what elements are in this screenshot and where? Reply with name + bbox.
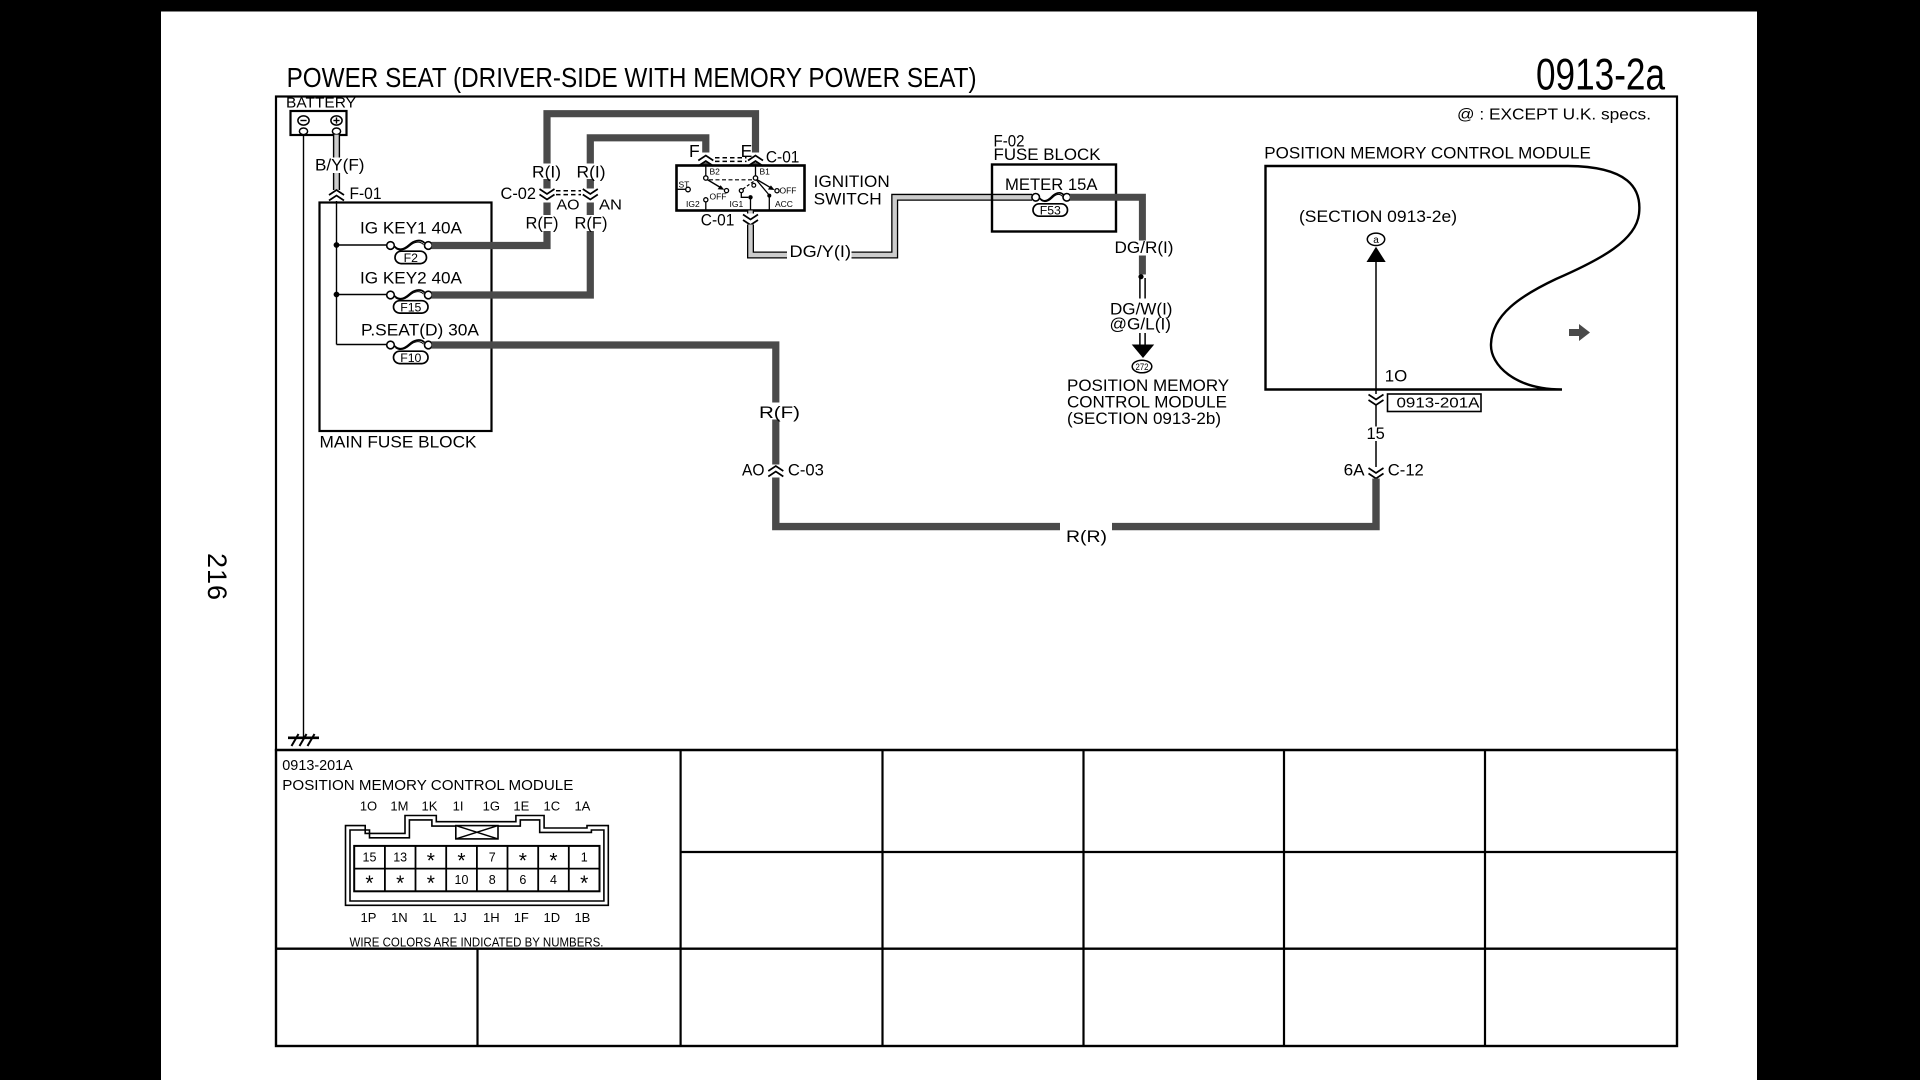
note EXCEPT U.K. specs [1457,107,1651,124]
svg-text:F15: F15 [400,301,421,315]
svg-text:BATTERY: BATTERY [286,95,356,112]
fuse block F-02 box [992,165,1116,232]
svg-text:C-02: C-02 [501,185,537,203]
svg-text:E: E [741,141,753,161]
fuse F10 P.SEAT(D) 30A [337,321,480,366]
svg-text:1E: 1E [513,799,529,814]
arrow up into node a [1367,247,1386,262]
svg-text:WIRE COLORS ARE INDICATED BY N: WIRE COLORS ARE INDICATED BY NUMBERS. [350,936,604,950]
label R(I) right [573,164,610,182]
svg-text:1O: 1O [360,799,377,814]
wire DG/W(I) splice to module 2b [1110,278,1173,345]
svg-text:POWER SEAT (DRIVER-SIDE WITH M: POWER SEAT (DRIVER-SIDE WITH MEMORY POWE… [287,62,977,93]
node a [1367,233,1384,246]
diagram border frame [276,97,1677,751]
svg-text:*: * [580,872,588,895]
svg-text:F: F [689,141,700,161]
svg-text:1K: 1K [422,799,438,814]
fuse F2 IG KEY1 40A [337,219,463,266]
svg-text:@G/L(I): @G/L(I) [1110,315,1172,334]
svg-text:OFF: OFF [710,192,727,202]
svg-text:10: 10 [455,873,469,887]
svg-text:1N: 1N [391,910,408,925]
wire DG/R(I) fuse to splice [1070,197,1176,274]
svg-text:SWITCH: SWITCH [814,190,882,209]
bottom table frame [276,750,1677,1046]
svg-text:*: * [519,850,527,873]
svg-text:POSITION MEMORY CONTROL MODULE: POSITION MEMORY CONTROL MODULE [282,777,573,794]
battery B01 [291,111,347,135]
svg-text:DG/R(I): DG/R(I) [1115,238,1174,257]
svg-text:F-01: F-01 [350,185,382,203]
svg-text:C-01: C-01 [766,149,800,167]
wire B/Y(F) battery positive to F-01 [312,135,368,190]
svg-text:IG KEY1 40A: IG KEY1 40A [360,219,463,238]
svg-text:P.SEAT(D) 30A: P.SEAT(D) 30A [361,321,480,340]
wire P.SEAT R(F) fuse F10 to C-03 [432,345,802,465]
svg-text:1I: 1I [453,799,464,814]
connector pin grid [354,846,599,891]
sheet code 0913-2a [1536,51,1665,100]
label R(I) left [528,164,565,182]
svg-text:13: 13 [393,851,407,865]
svg-text:1: 1 [581,851,588,865]
ground [288,734,319,746]
connector C-01 bottom [701,212,758,230]
svg-text:IGNITION: IGNITION [814,172,890,191]
fuse F53 METER 15A [1032,193,1071,218]
svg-text:B1: B1 [760,167,771,177]
svg-text:AO: AO [557,197,580,214]
svg-text:1L: 1L [422,910,436,925]
splice dot [1138,274,1143,279]
svg-text:*: * [365,872,373,895]
svg-text:*: * [396,872,404,895]
connector C-12 [1344,461,1424,480]
wire pin 1O to connector [1376,262,1407,394]
svg-text:4: 4 [550,873,557,887]
ignition switch internals [677,166,797,211]
module U1 outline with torn edge [1266,166,1640,390]
svg-text:R(F): R(F) [759,403,800,422]
label section 0913-2e [1299,207,1457,226]
svg-text:AN: AN [599,197,622,214]
connector C-03 [742,461,824,480]
junction node fuse bus 2 [334,292,340,298]
title POWER SEAT [287,62,977,93]
position memory control module label [1264,144,1591,163]
svg-text:C-01: C-01 [701,212,735,230]
svg-text:1C: 1C [543,799,560,814]
svg-text:1D: 1D [543,910,560,925]
svg-text:0913-2a: 0913-2a [1536,51,1665,100]
svg-text:1P: 1P [361,910,377,925]
connector F-01 [329,185,382,203]
svg-text:ACC: ACC [775,199,793,209]
svg-text:15: 15 [363,851,377,865]
svg-text:B/Y(F): B/Y(F) [315,157,365,175]
svg-text:POSITION MEMORY CONTROL MODULE: POSITION MEMORY CONTROL MODULE [1264,144,1591,163]
wire battery negative to ground [303,135,305,738]
label R(F) right [571,215,612,233]
svg-text:1O: 1O [1385,367,1408,386]
svg-text:F2: F2 [404,251,419,265]
svg-text:OFF: OFF [780,186,797,196]
svg-text:R(F): R(F) [526,215,559,233]
pin numbers row 1 [363,850,588,873]
svg-text:7: 7 [489,851,496,865]
svg-text:216: 216 [202,553,232,600]
svg-text:*: * [549,850,557,873]
svg-text:1J: 1J [453,910,467,925]
connector pin letters bottom row [361,910,591,925]
wire pin 15 [1364,405,1387,467]
svg-text:FUSE BLOCK: FUSE BLOCK [994,146,1101,164]
arrow to 272 [1132,345,1155,359]
svg-text:*: * [457,850,465,873]
connector 0913-201A chevron [1369,394,1482,412]
label position memory control module (section 0913-2b) [1067,376,1229,428]
svg-text:IG KEY2 40A: IG KEY2 40A [360,269,463,288]
svg-text:1G: 1G [483,799,500,814]
connector cell heading [282,757,573,794]
svg-text:6: 6 [519,873,526,887]
svg-text:B2: B2 [710,167,721,177]
svg-text:DG/Y(I): DG/Y(I) [790,243,852,261]
wire bus inside fuse block [336,201,338,345]
svg-text:15: 15 [1367,425,1385,443]
svg-text:(SECTION 0913-2e): (SECTION 0913-2e) [1299,207,1457,226]
page number 216 (rotated) [202,553,232,600]
svg-text:0913-201A: 0913-201A [1397,395,1480,412]
svg-text:METER 15A: METER 15A [1005,176,1098,194]
label R(F) left [522,215,563,233]
svg-text:AO: AO [742,461,765,480]
svg-text:0913-201A: 0913-201A [282,757,353,774]
pin numbers row 2 [365,872,588,895]
wire DG/Y(I) ignition switch to meter fuse [751,197,1033,261]
wire R(R) long bottom run [776,478,1376,547]
svg-text:1A: 1A [574,799,590,814]
svg-text:F10: F10 [400,351,421,365]
svg-text:(SECTION 0913-2b): (SECTION 0913-2b) [1067,409,1221,428]
svg-text:272: 272 [1136,362,1149,373]
svg-text:C-12: C-12 [1388,461,1424,480]
connector pin letters top row [360,799,591,814]
svg-text:R(I): R(I) [532,164,561,182]
connector C-02 [501,185,623,214]
svg-text:R(F): R(F) [575,215,608,233]
svg-text:C-03: C-03 [788,461,824,480]
wire R(F)/R(I) from fuse F15 to ignition switch F [432,138,706,295]
svg-text:R(I): R(I) [577,164,606,182]
svg-text:1F: 1F [514,910,529,925]
svg-text:R(R): R(R) [1066,527,1107,546]
svg-text:1M: 1M [390,799,408,814]
wire R(F)/R(I) from fuse F2 to ignition switch E [432,114,756,246]
svg-text:a: a [1373,235,1379,246]
svg-text:IG1: IG1 [730,199,744,209]
svg-text:1B: 1B [574,910,590,925]
fuse block F-02 labels [994,133,1101,165]
main fuse block box [320,203,492,452]
svg-text:*: * [427,850,435,873]
right-arrow mark [1569,324,1590,341]
svg-text:*: * [427,872,435,895]
svg-text:MAIN FUSE BLOCK: MAIN FUSE BLOCK [320,433,478,452]
svg-text:F53: F53 [1040,204,1061,218]
svg-text:8: 8 [489,873,496,887]
wire colors note [350,936,604,950]
ignition switch box [677,166,890,211]
junction node fuse bus 1 [334,242,340,248]
node 272 [1132,360,1152,373]
battery label [286,95,356,112]
svg-text:@ : EXCEPT U.K. specs.: @ : EXCEPT U.K. specs. [1457,107,1651,124]
connector 0913-201A housing outline [346,816,609,906]
svg-text:1H: 1H [483,910,500,925]
connector C-01 top at ignition switch [689,141,799,167]
svg-text:IG2: IG2 [686,199,700,209]
svg-text:6A: 6A [1344,461,1366,480]
fuse F15 IG KEY2 40A [337,269,463,315]
